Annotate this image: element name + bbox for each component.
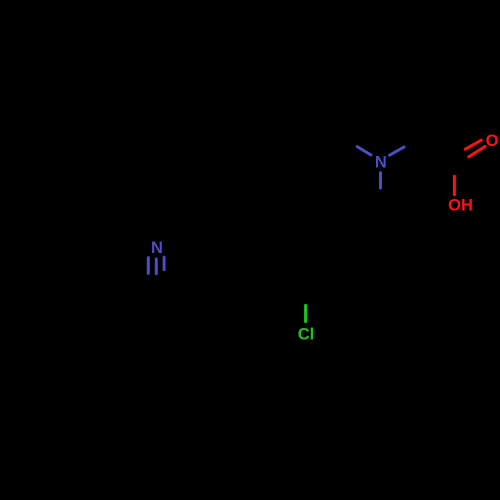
svg-text:OH: OH: [448, 197, 473, 215]
svg-text:Cl: Cl: [298, 326, 315, 344]
svg-text:N: N: [375, 154, 387, 172]
svg-text:N: N: [151, 239, 163, 257]
svg-text:O: O: [486, 132, 499, 150]
